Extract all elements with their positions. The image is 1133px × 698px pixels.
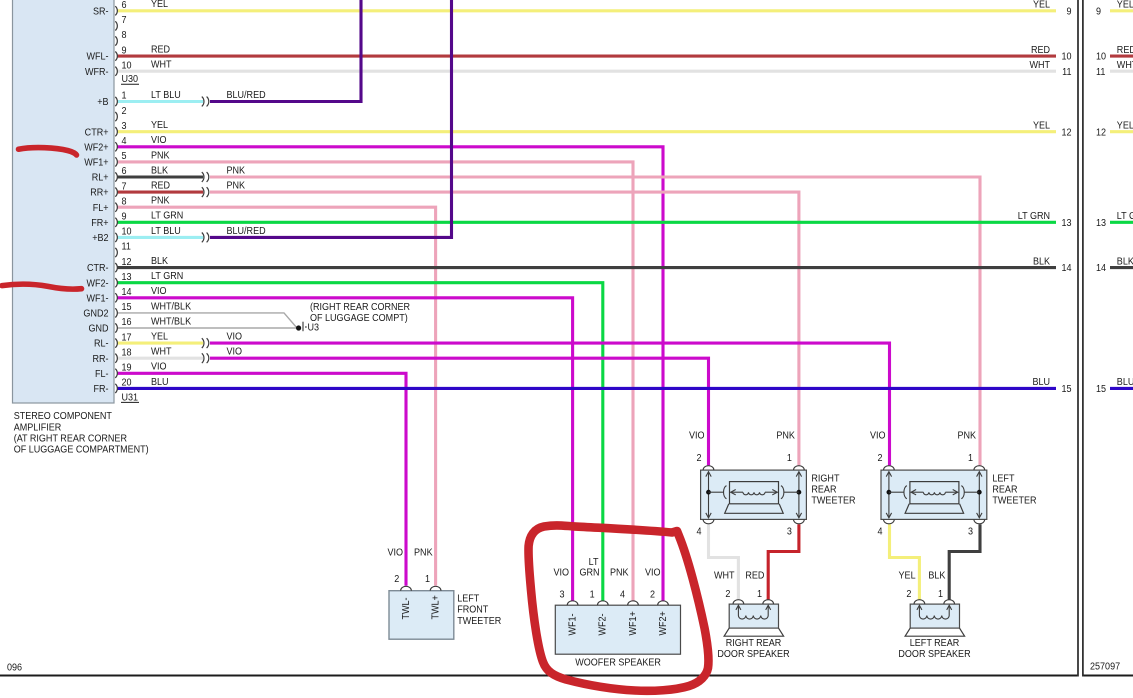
svg-text:18: 18: [122, 347, 133, 359]
svg-text:BLU: BLU: [1032, 377, 1050, 389]
svg-text:4: 4: [620, 589, 626, 601]
svg-text:PNK: PNK: [414, 547, 433, 559]
svg-text:WHT: WHT: [151, 59, 172, 71]
svg-text:VIO: VIO: [227, 331, 243, 343]
svg-text:REAR: REAR: [811, 484, 836, 496]
svg-text:VIO: VIO: [553, 567, 569, 579]
svg-text:2: 2: [877, 453, 882, 465]
svg-text:PNK: PNK: [957, 430, 976, 442]
svg-text:FR+: FR+: [91, 217, 109, 229]
svg-text:FL+: FL+: [93, 202, 109, 214]
svg-text:VIO: VIO: [227, 346, 243, 358]
svg-text:WHT: WHT: [714, 570, 735, 582]
svg-text:1: 1: [968, 453, 973, 465]
svg-text:15: 15: [1096, 383, 1107, 395]
svg-text:BLK: BLK: [1117, 256, 1133, 268]
svg-text:1: 1: [590, 589, 595, 601]
svg-text:BLU: BLU: [151, 376, 169, 388]
svg-text:PNK: PNK: [610, 567, 629, 579]
svg-text:3: 3: [122, 120, 128, 132]
svg-text:GND: GND: [88, 323, 108, 335]
svg-text:19: 19: [122, 362, 132, 374]
svg-text:2: 2: [725, 588, 730, 600]
svg-text:WF1+: WF1+: [84, 157, 109, 169]
svg-text:257097: 257097: [1090, 661, 1120, 673]
svg-text:5: 5: [122, 151, 128, 163]
svg-text:VIO: VIO: [387, 547, 403, 559]
svg-text:9: 9: [1066, 6, 1071, 18]
svg-text:3: 3: [787, 526, 793, 538]
svg-text:10: 10: [1096, 51, 1107, 63]
svg-text:LT GRN: LT GRN: [1018, 211, 1050, 223]
svg-text:10: 10: [122, 60, 133, 72]
svg-text:WF2+: WF2+: [84, 142, 109, 154]
svg-text:1: 1: [122, 90, 127, 102]
svg-text:PNK: PNK: [227, 180, 246, 192]
svg-text:DOOR SPEAKER: DOOR SPEAKER: [717, 648, 789, 660]
svg-text:BLU/RED: BLU/RED: [227, 225, 266, 237]
svg-text:17: 17: [122, 332, 132, 344]
svg-text:12: 12: [122, 256, 132, 268]
svg-text:+B: +B: [97, 97, 109, 109]
svg-text:11: 11: [1062, 66, 1071, 78]
svg-text:WF2+: WF2+: [657, 611, 669, 636]
svg-text:OF LUGGAGE COMPARTMENT): OF LUGGAGE COMPARTMENT): [14, 444, 149, 456]
svg-text:AMPLIFIER: AMPLIFIER: [14, 422, 62, 434]
svg-text:GND2: GND2: [83, 308, 108, 320]
svg-text:4: 4: [122, 135, 128, 147]
svg-text:YEL: YEL: [1033, 0, 1051, 11]
svg-text:12: 12: [1096, 127, 1106, 139]
svg-text:GRN: GRN: [579, 567, 599, 579]
svg-text:8: 8: [122, 196, 128, 208]
svg-text:6: 6: [122, 0, 128, 11]
svg-text:VIO: VIO: [870, 430, 886, 442]
svg-text:TWL+: TWL+: [430, 595, 442, 620]
svg-text:2: 2: [122, 105, 127, 117]
svg-text:10: 10: [1061, 51, 1072, 63]
svg-text:13: 13: [1061, 217, 1072, 229]
svg-text:14: 14: [1061, 263, 1072, 275]
svg-text:VIO: VIO: [689, 430, 705, 442]
svg-text:STEREO COMPONENT: STEREO COMPONENT: [14, 411, 112, 423]
svg-text:WFR-: WFR-: [85, 66, 109, 78]
svg-text:RED: RED: [1117, 44, 1133, 56]
svg-text:PNK: PNK: [227, 165, 246, 177]
svg-text:YEL: YEL: [1117, 0, 1133, 11]
svg-text:YEL: YEL: [1117, 120, 1133, 132]
svg-text:9: 9: [1096, 6, 1101, 18]
svg-text:RED: RED: [151, 180, 170, 192]
svg-text:DOOR SPEAKER: DOOR SPEAKER: [898, 648, 970, 660]
svg-text:+B2: +B2: [92, 232, 108, 244]
svg-text:VIO: VIO: [151, 361, 167, 373]
svg-text:3: 3: [968, 526, 974, 538]
svg-text:VIO: VIO: [151, 286, 167, 298]
svg-text:1: 1: [787, 453, 792, 465]
svg-text:TWEETER: TWEETER: [457, 615, 501, 627]
svg-text:RR+: RR+: [90, 187, 109, 199]
svg-text:VIO: VIO: [151, 135, 167, 147]
svg-text:2: 2: [906, 588, 911, 600]
svg-text:RL+: RL+: [92, 172, 109, 184]
svg-text:1: 1: [938, 588, 943, 600]
svg-text:16: 16: [122, 317, 133, 329]
svg-text:WOOFER SPEAKER: WOOFER SPEAKER: [575, 657, 661, 669]
svg-text:1: 1: [425, 574, 430, 586]
svg-text:TWL-: TWL-: [400, 597, 412, 619]
svg-text:BLK: BLK: [928, 570, 945, 582]
svg-text:RL-: RL-: [94, 338, 109, 350]
svg-text:15: 15: [122, 302, 133, 314]
svg-text:12: 12: [1061, 127, 1071, 139]
svg-text:RIGHT: RIGHT: [811, 473, 839, 485]
svg-text:LT BLU: LT BLU: [151, 89, 181, 101]
svg-text:RR-: RR-: [92, 353, 108, 365]
svg-text:BLK: BLK: [1033, 256, 1050, 268]
svg-text:YEL: YEL: [151, 120, 169, 132]
svg-text:YEL: YEL: [151, 0, 169, 10]
svg-text:8: 8: [122, 30, 128, 42]
svg-text:13: 13: [122, 271, 133, 283]
svg-text:FR-: FR-: [93, 383, 108, 395]
svg-text:9: 9: [122, 45, 127, 57]
svg-text:WF1-: WF1-: [86, 293, 108, 305]
svg-text:CTR+: CTR+: [85, 127, 109, 139]
svg-text:BLK: BLK: [151, 255, 168, 267]
svg-text:LT GRN: LT GRN: [151, 271, 183, 283]
svg-text:OF LUGGAGE COMPT): OF LUGGAGE COMPT): [310, 312, 408, 324]
svg-text:RED: RED: [151, 44, 170, 56]
svg-text:20: 20: [122, 377, 133, 389]
svg-text:11: 11: [1096, 66, 1105, 78]
svg-text:BLK: BLK: [151, 165, 168, 177]
svg-text:13: 13: [1096, 217, 1107, 229]
svg-text:RED: RED: [1031, 44, 1050, 56]
svg-text:PNK: PNK: [151, 195, 170, 207]
svg-text:FRONT: FRONT: [457, 604, 488, 616]
svg-text:LEFT: LEFT: [992, 473, 1014, 485]
svg-text:14: 14: [122, 286, 133, 298]
svg-text:REAR: REAR: [992, 484, 1017, 496]
svg-text:7: 7: [122, 15, 127, 27]
svg-text:U30: U30: [122, 74, 139, 86]
svg-text:YEL: YEL: [899, 570, 917, 582]
svg-text:WF1+: WF1+: [627, 611, 639, 636]
svg-text:WHT: WHT: [1029, 59, 1050, 71]
svg-text:4: 4: [696, 526, 702, 538]
svg-text:PNK: PNK: [151, 150, 170, 162]
svg-text:WHT/BLK: WHT/BLK: [151, 316, 192, 328]
svg-text:U31: U31: [122, 392, 139, 404]
svg-text:TWEETER: TWEETER: [811, 495, 855, 507]
svg-text:LEFT: LEFT: [457, 593, 479, 605]
svg-text:SR-: SR-: [93, 6, 109, 18]
svg-text:14: 14: [1096, 263, 1107, 275]
svg-text:WHT: WHT: [151, 346, 172, 358]
svg-text:6: 6: [122, 166, 128, 178]
svg-text:LT BLU: LT BLU: [151, 225, 181, 237]
svg-text:WF1-: WF1-: [567, 613, 579, 635]
svg-text:CTR-: CTR-: [87, 263, 109, 275]
svg-text:WFL-: WFL-: [86, 51, 108, 63]
svg-text:4: 4: [877, 526, 883, 538]
svg-text:2: 2: [696, 453, 701, 465]
svg-text:RED: RED: [745, 570, 764, 582]
svg-text:BLU: BLU: [1117, 377, 1133, 389]
svg-text:WHT/BLK: WHT/BLK: [151, 301, 192, 313]
svg-text:LT GRN: LT GRN: [151, 210, 183, 222]
svg-text:2: 2: [650, 589, 655, 601]
svg-text:7: 7: [122, 181, 127, 193]
svg-text:(AT RIGHT REAR CORNER: (AT RIGHT REAR CORNER: [14, 433, 127, 445]
svg-text:2: 2: [394, 574, 399, 586]
svg-text:WF2-: WF2-: [86, 278, 108, 290]
svg-text:LT GRN: LT GRN: [1117, 211, 1133, 223]
svg-text:9: 9: [122, 211, 127, 223]
svg-text:PNK: PNK: [776, 430, 795, 442]
svg-text:TWEETER: TWEETER: [992, 495, 1036, 507]
svg-text:3: 3: [559, 589, 565, 601]
svg-text:WHT: WHT: [1117, 59, 1133, 71]
svg-text:VIO: VIO: [645, 567, 661, 579]
svg-text:096: 096: [7, 662, 23, 674]
svg-text:YEL: YEL: [1033, 120, 1051, 132]
svg-text:BLU/RED: BLU/RED: [227, 89, 266, 101]
svg-text:YEL: YEL: [151, 331, 169, 343]
svg-text:WF2-: WF2-: [597, 613, 609, 635]
svg-text:15: 15: [1061, 383, 1072, 395]
svg-text:FL-: FL-: [95, 368, 109, 380]
svg-text:1: 1: [757, 588, 762, 600]
svg-text:10: 10: [122, 226, 133, 238]
svg-text:11: 11: [122, 241, 131, 253]
